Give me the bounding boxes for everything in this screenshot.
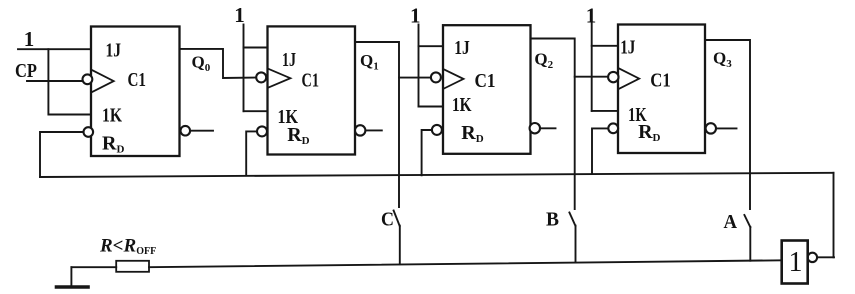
wire 1 input vertical U4 (591, 23, 593, 111)
resistor R (116, 261, 149, 272)
svg-text:RD: RD (287, 124, 309, 147)
svg-text:C1: C1 (475, 70, 496, 92)
wire Q2 branch to U4 clock (575, 76, 608, 78)
wire Q1 branch to U3 clock (399, 77, 431, 79)
switch B blade (569, 213, 575, 226)
switch A blade (744, 215, 750, 227)
bubble U4 clock (608, 72, 618, 82)
wire U3 1K (419, 106, 444, 108)
wire CP input (27, 80, 82, 82)
wire U3 Qbar stub (540, 127, 555, 129)
flip-flop U2 box (268, 26, 356, 154)
ground (57, 285, 89, 289)
wire U3 1J (419, 45, 444, 47)
svg-text:B: B (546, 209, 559, 231)
svg-text:1K: 1K (102, 105, 122, 127)
bubble U1 RD (84, 127, 94, 137)
wire bottom bus (149, 260, 782, 267)
U4 clock triangle (619, 68, 639, 89)
wire Q2 to U4 clock and switch B (531, 39, 575, 210)
bubble U4 Qbar (706, 123, 716, 133)
wire switch B lower (575, 226, 577, 263)
svg-text:C1: C1 (650, 70, 671, 92)
wire ground riser (70, 267, 72, 286)
wire U3 RD input (422, 130, 432, 175)
wire 1 input to U1 1J (18, 48, 91, 50)
flip-flop U1 box (91, 27, 180, 157)
svg-text:R<ROFF: R<ROFF (99, 236, 156, 258)
switch C blade (394, 211, 400, 226)
svg-text:C1: C1 (128, 69, 147, 91)
svg-text:1: 1 (586, 4, 597, 28)
bubble inverter output (808, 253, 817, 262)
svg-text:1: 1 (24, 27, 35, 51)
U3 clock triangle (444, 69, 464, 88)
wire U4 1K (592, 110, 618, 112)
U1 clock triangle (92, 70, 113, 92)
svg-text:1J: 1J (282, 49, 296, 71)
bubble U3 Qbar (530, 123, 540, 133)
wire U2 RD input (246, 131, 257, 175)
bubble U2 clock (256, 72, 266, 82)
wire Q1 to U3 clock and switch C (355, 42, 399, 207)
wire inverter output riser (833, 173, 835, 257)
svg-text:RD: RD (461, 122, 483, 145)
wire U2 1K (244, 110, 268, 112)
bubble U3 clock (431, 72, 441, 82)
wire U4 RD input (592, 128, 608, 172)
wire switch A lower (749, 227, 751, 261)
flip-flop U4 box (618, 25, 705, 154)
wire 1 input vertical U3 (418, 25, 420, 107)
wire U1 RD input (40, 132, 84, 177)
svg-text:RD: RD (102, 132, 124, 155)
U2 clock triangle (268, 69, 290, 88)
wire 1 input vertical U2 (243, 25, 245, 112)
wire reset bus (40, 173, 834, 177)
wire U4 1J (592, 45, 618, 47)
svg-text:A: A (724, 211, 738, 233)
bubble U1 Qbar (181, 126, 191, 136)
svg-text:1: 1 (410, 4, 421, 28)
svg-text:C: C (381, 208, 394, 230)
wire switch C lower (399, 226, 401, 265)
bubble U2 Qbar (355, 125, 365, 135)
wire Q3 to switch A (705, 40, 750, 209)
wire U2 1J (244, 47, 268, 49)
inverter gate box (782, 241, 808, 284)
svg-text:1J: 1J (620, 37, 635, 59)
svg-text:Q0: Q0 (192, 52, 211, 74)
wire U1 Qbar stub (190, 130, 213, 132)
svg-text:Q1: Q1 (360, 51, 379, 73)
bubble U3 RD (432, 125, 442, 135)
svg-text:Q2: Q2 (534, 50, 553, 72)
wire U4 Qbar stub (716, 127, 737, 129)
bubble U1 clock (83, 74, 93, 84)
wire branch 1 to U1 1K (48, 49, 91, 114)
svg-text:Q3: Q3 (713, 49, 732, 71)
svg-text:1J: 1J (106, 40, 122, 62)
wire Q0 to U2 clock (180, 49, 257, 78)
wire U2 Qbar stub (365, 129, 381, 131)
svg-text:RD: RD (638, 121, 660, 144)
svg-text:CP: CP (15, 60, 37, 82)
svg-text:1J: 1J (454, 37, 470, 59)
bubble U2 RD (257, 126, 267, 136)
svg-text:1: 1 (789, 247, 803, 278)
svg-text:1: 1 (234, 3, 245, 27)
svg-text:C1: C1 (302, 70, 320, 92)
bubble U4 RD (608, 123, 618, 133)
flip-flop U3 box (443, 25, 531, 154)
wire ground to resistor (71, 266, 116, 268)
wire inverter output to riser (817, 256, 834, 258)
svg-text:1K: 1K (452, 94, 472, 116)
